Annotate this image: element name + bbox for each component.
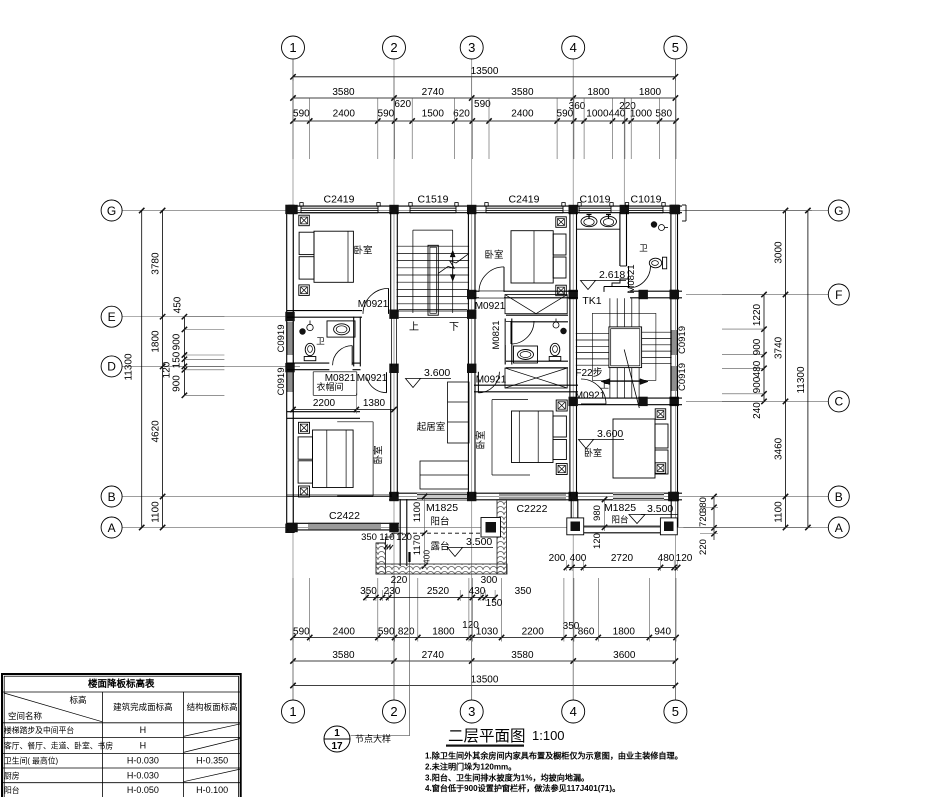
svg-text:480: 480 <box>752 360 763 377</box>
svg-text:H-0.050: H-0.050 <box>127 785 159 795</box>
svg-text:2.618: 2.618 <box>599 269 625 281</box>
svg-text:2: 2 <box>390 704 397 719</box>
svg-text:D: D <box>107 360 116 374</box>
svg-text:360: 360 <box>569 101 586 112</box>
svg-text:卫: 卫 <box>316 336 325 346</box>
svg-text:860: 860 <box>578 627 595 638</box>
svg-text:3580: 3580 <box>511 650 534 661</box>
svg-text:820: 820 <box>398 627 415 638</box>
svg-text:720: 720 <box>698 511 709 527</box>
svg-text:M0921: M0921 <box>575 391 606 402</box>
svg-text:350: 350 <box>515 586 532 597</box>
svg-text:3000: 3000 <box>774 241 785 264</box>
svg-text:C2419: C2419 <box>509 194 540 206</box>
svg-text:400: 400 <box>570 553 587 564</box>
svg-text:4620: 4620 <box>151 420 162 443</box>
svg-text:3780: 3780 <box>151 252 162 275</box>
svg-text:1380: 1380 <box>363 398 386 409</box>
svg-text:H: H <box>140 725 147 735</box>
svg-text:380: 380 <box>698 497 709 513</box>
svg-text:980: 980 <box>592 505 603 521</box>
svg-text:M1825: M1825 <box>426 502 458 514</box>
svg-text:1000: 1000 <box>586 109 609 120</box>
svg-text:350: 350 <box>563 621 580 632</box>
svg-text:2720: 2720 <box>611 553 634 564</box>
svg-text:M1825: M1825 <box>604 502 636 514</box>
svg-text:二层平面图: 二层平面图 <box>448 728 526 745</box>
svg-text:150: 150 <box>171 351 182 368</box>
svg-text:空间名称: 空间名称 <box>8 711 43 721</box>
svg-text:F: F <box>835 288 842 302</box>
svg-text:3580: 3580 <box>332 87 355 98</box>
svg-text:上: 上 <box>600 380 609 390</box>
svg-text:TK1: TK1 <box>582 295 601 307</box>
svg-text:M0921: M0921 <box>357 373 388 384</box>
svg-text:430: 430 <box>469 586 486 597</box>
svg-text:起居室: 起居室 <box>417 421 446 433</box>
svg-text:3: 3 <box>468 704 475 719</box>
svg-text:B: B <box>108 490 116 504</box>
svg-text:C0919: C0919 <box>276 325 287 353</box>
svg-text:400: 400 <box>422 550 432 564</box>
svg-text:200: 200 <box>549 553 566 564</box>
svg-text:A: A <box>108 521 116 535</box>
svg-text:3580: 3580 <box>511 87 534 98</box>
svg-text:卧室: 卧室 <box>353 245 372 257</box>
svg-text:300: 300 <box>481 575 498 586</box>
svg-text:2740: 2740 <box>422 650 445 661</box>
svg-text:卫: 卫 <box>639 243 648 253</box>
svg-text:120: 120 <box>676 553 693 564</box>
svg-text:900: 900 <box>171 375 182 392</box>
svg-text:下: 下 <box>449 322 459 333</box>
svg-text:350: 350 <box>361 532 377 543</box>
svg-text:590: 590 <box>474 99 491 110</box>
svg-text:建筑完成面标高: 建筑完成面标高 <box>113 702 173 712</box>
svg-text:结构板面标高: 结构板面标高 <box>187 702 238 712</box>
svg-text:H: H <box>140 740 147 750</box>
svg-text:17: 17 <box>331 741 343 752</box>
svg-text:厨房: 厨房 <box>4 770 20 780</box>
svg-text:3460: 3460 <box>774 437 785 460</box>
svg-text:1: 1 <box>334 728 340 739</box>
svg-text:楼面降板标高表: 楼面降板标高表 <box>88 678 155 690</box>
svg-text:3.500: 3.500 <box>647 503 673 515</box>
svg-text:A: A <box>835 521 843 535</box>
svg-text:客厅、餐厅、走道、卧室、书房: 客厅、餐厅、走道、卧室、书房 <box>4 740 113 750</box>
svg-text:1800: 1800 <box>639 87 662 98</box>
svg-text:590: 590 <box>293 627 310 638</box>
svg-text:1.除卫生间外其余房间内家具布置及橱柜仅为示意图，由业主装修: 1.除卫生间外其余房间内家具布置及橱柜仅为示意图，由业主装修自理。 <box>425 751 683 761</box>
svg-text:1170: 1170 <box>412 535 423 555</box>
svg-text:F22步: F22步 <box>575 367 602 379</box>
svg-text:11300: 11300 <box>796 366 807 394</box>
svg-text:450: 450 <box>172 296 183 313</box>
svg-text:480: 480 <box>658 553 675 564</box>
svg-text:露台: 露台 <box>430 541 449 553</box>
svg-text:2: 2 <box>390 40 397 55</box>
svg-text:卧室: 卧室 <box>584 447 602 458</box>
svg-text:2740: 2740 <box>422 87 445 98</box>
svg-text:3580: 3580 <box>332 650 355 661</box>
svg-text:阳台: 阳台 <box>611 515 628 525</box>
svg-text:3.600: 3.600 <box>597 428 623 440</box>
svg-text:2200: 2200 <box>313 398 336 409</box>
svg-text:120: 120 <box>592 533 603 549</box>
svg-text:110: 110 <box>379 532 394 543</box>
svg-text:13500: 13500 <box>471 675 499 686</box>
svg-text:C0919: C0919 <box>677 326 688 354</box>
svg-text:C2222: C2222 <box>517 503 548 515</box>
svg-text:580: 580 <box>655 109 672 120</box>
svg-text:C0919: C0919 <box>677 363 688 391</box>
svg-text:590: 590 <box>378 627 395 638</box>
svg-text:2400: 2400 <box>511 109 534 120</box>
svg-text:13500: 13500 <box>471 66 499 77</box>
svg-text:900: 900 <box>171 333 182 350</box>
svg-text:G: G <box>107 204 116 218</box>
svg-text:1: 1 <box>289 40 296 55</box>
svg-text:M0921: M0921 <box>358 299 389 310</box>
svg-text:阳台: 阳台 <box>430 516 449 528</box>
svg-text:1800: 1800 <box>151 330 162 353</box>
svg-text:3.500: 3.500 <box>466 536 492 548</box>
svg-text:卫生间( 最高位): 卫生间( 最高位) <box>4 756 59 766</box>
svg-text:C: C <box>834 395 843 409</box>
svg-text:1500: 1500 <box>422 109 445 120</box>
svg-text:C2422: C2422 <box>329 510 360 522</box>
svg-text:H-0.350: H-0.350 <box>196 756 228 766</box>
svg-text:590: 590 <box>293 109 310 120</box>
svg-text:350: 350 <box>360 586 377 597</box>
svg-text:2400: 2400 <box>333 627 356 638</box>
svg-text:H-0.030: H-0.030 <box>127 770 159 780</box>
svg-text:卧室: 卧室 <box>484 249 503 261</box>
svg-text:1800: 1800 <box>587 87 610 98</box>
svg-text:C2419: C2419 <box>324 194 355 206</box>
svg-text:B: B <box>835 490 843 504</box>
svg-text:150: 150 <box>486 598 503 609</box>
svg-text:1100: 1100 <box>774 501 785 523</box>
svg-text:120: 120 <box>396 532 412 543</box>
svg-text:1100: 1100 <box>412 502 423 522</box>
svg-text:3740: 3740 <box>774 336 785 359</box>
svg-text:H-0.100: H-0.100 <box>196 785 228 795</box>
svg-text:M0821: M0821 <box>325 373 356 384</box>
svg-text:220: 220 <box>698 539 709 555</box>
svg-text:220: 220 <box>391 575 408 586</box>
svg-text:1800: 1800 <box>613 627 636 638</box>
svg-text:230: 230 <box>384 586 401 597</box>
svg-text:2200: 2200 <box>522 627 545 638</box>
svg-text:940: 940 <box>654 627 671 638</box>
svg-text:C1019: C1019 <box>580 194 611 206</box>
svg-text:1:100: 1:100 <box>532 728 565 743</box>
svg-text:上: 上 <box>409 321 419 333</box>
svg-text:3: 3 <box>468 40 475 55</box>
svg-text:900: 900 <box>752 338 763 355</box>
svg-text:2400: 2400 <box>333 109 356 120</box>
svg-text:1: 1 <box>289 704 296 719</box>
svg-text:卧室: 卧室 <box>373 445 385 464</box>
svg-text:1220: 1220 <box>752 303 763 326</box>
svg-text:2.未注明门垛为120mm。: 2.未注明门垛为120mm。 <box>425 761 516 771</box>
svg-text:4: 4 <box>570 704 577 719</box>
svg-text:M0921: M0921 <box>476 375 507 386</box>
svg-text:900: 900 <box>752 376 763 393</box>
svg-text:C1519: C1519 <box>418 194 449 206</box>
svg-text:5: 5 <box>672 704 679 719</box>
svg-text:节点大样: 节点大样 <box>355 733 391 744</box>
svg-text:11300: 11300 <box>124 353 135 381</box>
svg-text:2520: 2520 <box>427 586 450 597</box>
svg-text:H-0.030: H-0.030 <box>127 756 159 766</box>
svg-text:阳台: 阳台 <box>4 785 20 795</box>
svg-text:楼梯踏步及中间平台: 楼梯踏步及中间平台 <box>4 725 74 735</box>
svg-text:590: 590 <box>378 109 395 120</box>
svg-text:3.600: 3.600 <box>424 367 450 379</box>
svg-text:1030: 1030 <box>476 627 499 638</box>
svg-text:620: 620 <box>394 99 411 110</box>
svg-text:4: 4 <box>570 40 577 55</box>
svg-text:M0821: M0821 <box>491 320 502 349</box>
svg-text:C1019: C1019 <box>631 194 662 206</box>
svg-text:M0821: M0821 <box>626 264 637 293</box>
svg-text:E: E <box>108 310 116 324</box>
svg-text:卧室: 卧室 <box>475 430 487 449</box>
svg-text:3.阳台、卫生间排水披度为1%，均披向地漏。: 3.阳台、卫生间排水披度为1%，均披向地漏。 <box>425 772 589 782</box>
svg-text:标高: 标高 <box>69 695 86 705</box>
svg-text:1800: 1800 <box>432 627 455 638</box>
svg-text:M0921: M0921 <box>475 301 506 312</box>
svg-text:240: 240 <box>752 402 763 419</box>
svg-text:4.窗台低于900设置护窗栏杆，做法参见117J401(71: 4.窗台低于900设置护窗栏杆，做法参见117J401(71)。 <box>425 783 620 793</box>
svg-text:220: 220 <box>619 101 636 112</box>
svg-text:620: 620 <box>453 109 470 120</box>
svg-text:G: G <box>834 204 843 218</box>
svg-text:5: 5 <box>672 40 679 55</box>
svg-text:120: 120 <box>462 620 479 631</box>
svg-text:1100: 1100 <box>151 501 162 523</box>
svg-text:3600: 3600 <box>613 650 636 661</box>
